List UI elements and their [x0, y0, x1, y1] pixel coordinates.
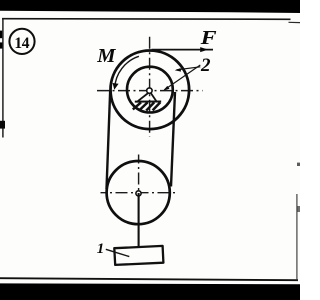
svg-text:F: F [199, 28, 216, 49]
svg-text:M: M [96, 45, 116, 67]
svg-text:2: 2 [200, 55, 211, 76]
svg-text:14: 14 [14, 35, 29, 52]
svg-text:1: 1 [97, 241, 105, 257]
